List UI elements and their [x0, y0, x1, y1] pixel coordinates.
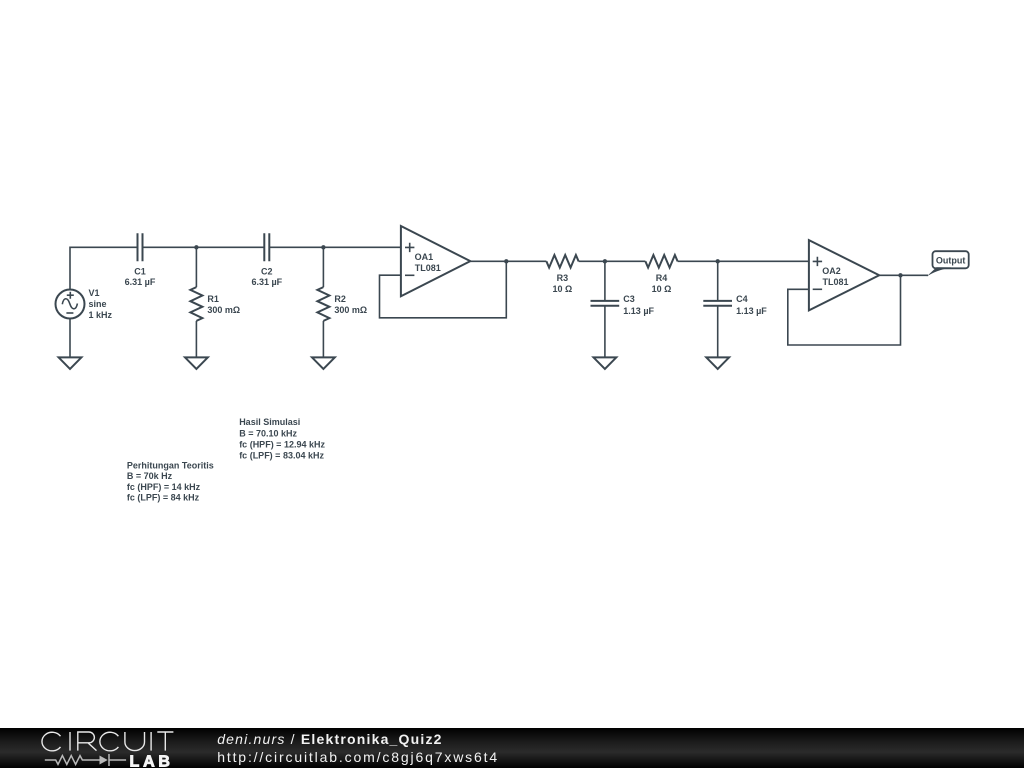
svg-text:10 Ω: 10 Ω — [553, 284, 573, 294]
svg-text:6.31 µF: 6.31 µF — [125, 277, 156, 287]
svg-text:10 Ω: 10 Ω — [652, 284, 672, 294]
svg-text:R4: R4 — [656, 273, 668, 283]
svg-text:fc (LPF) = 84 kHz: fc (LPF) = 84 kHz — [127, 492, 200, 502]
svg-text:C3: C3 — [623, 294, 635, 304]
svg-text:B = 70k Hz: B = 70k Hz — [127, 471, 173, 481]
svg-text:1.13 µF: 1.13 µF — [623, 306, 654, 316]
svg-text:http://circuitlab.com/c8gj6q7x: http://circuitlab.com/c8gj6q7xws6t4 — [217, 749, 499, 765]
svg-text:TL081: TL081 — [415, 263, 441, 273]
svg-text:V1: V1 — [89, 288, 100, 298]
svg-text:TL081: TL081 — [823, 277, 849, 287]
svg-text:deni.nurs / Elektronika_Quiz2: deni.nurs / Elektronika_Quiz2 — [217, 731, 442, 747]
svg-text:LAB: LAB — [130, 754, 174, 768]
svg-text:C2: C2 — [261, 266, 273, 276]
svg-text:300 mΩ: 300 mΩ — [207, 305, 240, 315]
svg-text:C4: C4 — [736, 294, 748, 304]
svg-text:fc (HPF) = 12.94 kHz: fc (HPF) = 12.94 kHz — [239, 440, 325, 450]
svg-text:1 kHz: 1 kHz — [89, 310, 113, 320]
svg-text:Hasil Simulasi: Hasil Simulasi — [239, 417, 300, 427]
svg-text:sine: sine — [89, 299, 107, 309]
svg-text:OA2: OA2 — [822, 266, 841, 276]
svg-text:C1: C1 — [134, 266, 146, 276]
svg-text:Perhitungan Teoritis: Perhitungan Teoritis — [127, 460, 214, 470]
svg-text:fc (HPF) = 14 kHz: fc (HPF) = 14 kHz — [127, 482, 201, 492]
svg-text:Output: Output — [936, 255, 966, 265]
svg-text:R3: R3 — [557, 273, 569, 283]
svg-text:R2: R2 — [334, 294, 346, 304]
svg-text:6.31 µF: 6.31 µF — [251, 277, 282, 287]
svg-text:OA1: OA1 — [415, 252, 434, 262]
svg-text:300 mΩ: 300 mΩ — [334, 305, 367, 315]
svg-text:1.13 µF: 1.13 µF — [736, 306, 767, 316]
svg-text:B = 70.10 kHz: B = 70.10 kHz — [239, 428, 297, 438]
svg-text:fc (LPF) = 83.04 kHz: fc (LPF) = 83.04 kHz — [239, 451, 324, 461]
svg-text:R1: R1 — [207, 294, 219, 304]
